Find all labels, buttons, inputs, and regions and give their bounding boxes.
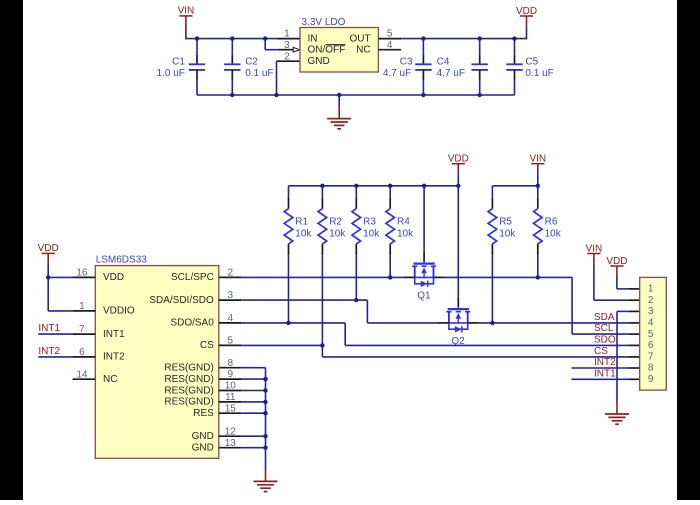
svg-text:SCL: SCL [594,323,614,334]
svg-text:R6: R6 [545,216,558,227]
svg-text:1: 1 [648,284,654,295]
svg-text:INT1: INT1 [38,323,60,334]
svg-text:2: 2 [284,51,290,62]
svg-text:NC: NC [356,45,370,56]
svg-text:RES(GND): RES(GND) [164,397,213,408]
svg-text:10k: 10k [295,228,312,239]
svg-text:10k: 10k [329,228,346,239]
svg-text:10k: 10k [499,228,516,239]
svg-text:9: 9 [648,374,654,385]
svg-text:VDD: VDD [38,243,59,254]
svg-text:SCL/SPC: SCL/SPC [171,272,214,283]
svg-text:4: 4 [648,318,654,329]
svg-text:8: 8 [648,363,654,374]
svg-text:6: 6 [648,340,654,351]
svg-text:10k: 10k [397,228,414,239]
svg-text:Q1: Q1 [417,290,431,301]
svg-text:10k: 10k [363,228,380,239]
svg-text:5: 5 [648,329,654,340]
svg-text:C1: C1 [172,57,185,68]
svg-text:R5: R5 [499,216,512,227]
svg-text:SDA: SDA [594,312,615,323]
svg-text:0.1 uF: 0.1 uF [525,68,553,79]
svg-text:C2: C2 [245,57,258,68]
svg-text:RES(GND): RES(GND) [164,374,213,385]
svg-text:NC: NC [103,374,117,385]
svg-text:VDD: VDD [516,6,537,17]
svg-text:LSM6DS33: LSM6DS33 [96,255,148,266]
svg-text:VIN: VIN [529,154,546,165]
svg-text:VIN: VIN [586,243,603,254]
svg-text:4.7 uF: 4.7 uF [383,68,411,79]
svg-text:INT2: INT2 [594,357,616,368]
svg-text:10k: 10k [545,228,562,239]
svg-text:ON/OFF: ON/OFF [308,45,346,56]
svg-text:R3: R3 [363,216,376,227]
svg-text:VDD: VDD [448,154,469,165]
svg-text:4.7 uF: 4.7 uF [437,68,465,79]
svg-text:RES(GND): RES(GND) [164,385,213,396]
svg-text:INT1: INT1 [103,329,125,340]
svg-text:INT2: INT2 [103,352,125,363]
svg-text:SDO: SDO [594,334,616,345]
svg-text:VDDIO: VDDIO [103,306,135,317]
svg-text:INT2: INT2 [38,346,60,357]
svg-text:RES(GND): RES(GND) [164,363,213,374]
svg-text:0.1 uF: 0.1 uF [245,68,273,79]
svg-text:3: 3 [648,306,654,317]
svg-text:VIN: VIN [178,6,195,17]
svg-text:1.0 uF: 1.0 uF [157,68,185,79]
svg-text:R1: R1 [295,216,308,227]
svg-text:VDD: VDD [103,272,124,283]
svg-text:3: 3 [284,40,290,51]
svg-text:IN: IN [308,33,318,44]
svg-text:7: 7 [648,352,654,363]
svg-text:GND: GND [192,443,214,454]
svg-text:OUT: OUT [349,33,370,44]
svg-text:2: 2 [648,295,654,306]
svg-text:VDD: VDD [606,256,627,267]
svg-text:C5: C5 [525,57,538,68]
svg-text:GND: GND [192,431,214,442]
svg-text:INT1: INT1 [594,368,616,379]
svg-text:RES: RES [193,408,214,419]
svg-text:C4: C4 [437,57,450,68]
svg-text:C3: C3 [400,57,413,68]
svg-text:CS: CS [200,340,214,351]
svg-text:R4: R4 [397,216,410,227]
svg-text:CS: CS [594,346,608,357]
svg-text:SDA/SDI/SDO: SDA/SDI/SDO [149,295,214,306]
svg-text:3.3V LDO: 3.3V LDO [302,17,346,28]
svg-text:R2: R2 [329,216,342,227]
svg-text:1: 1 [284,29,290,40]
svg-text:SDO/SA0: SDO/SA0 [170,318,214,329]
svg-text:GND: GND [308,56,330,67]
